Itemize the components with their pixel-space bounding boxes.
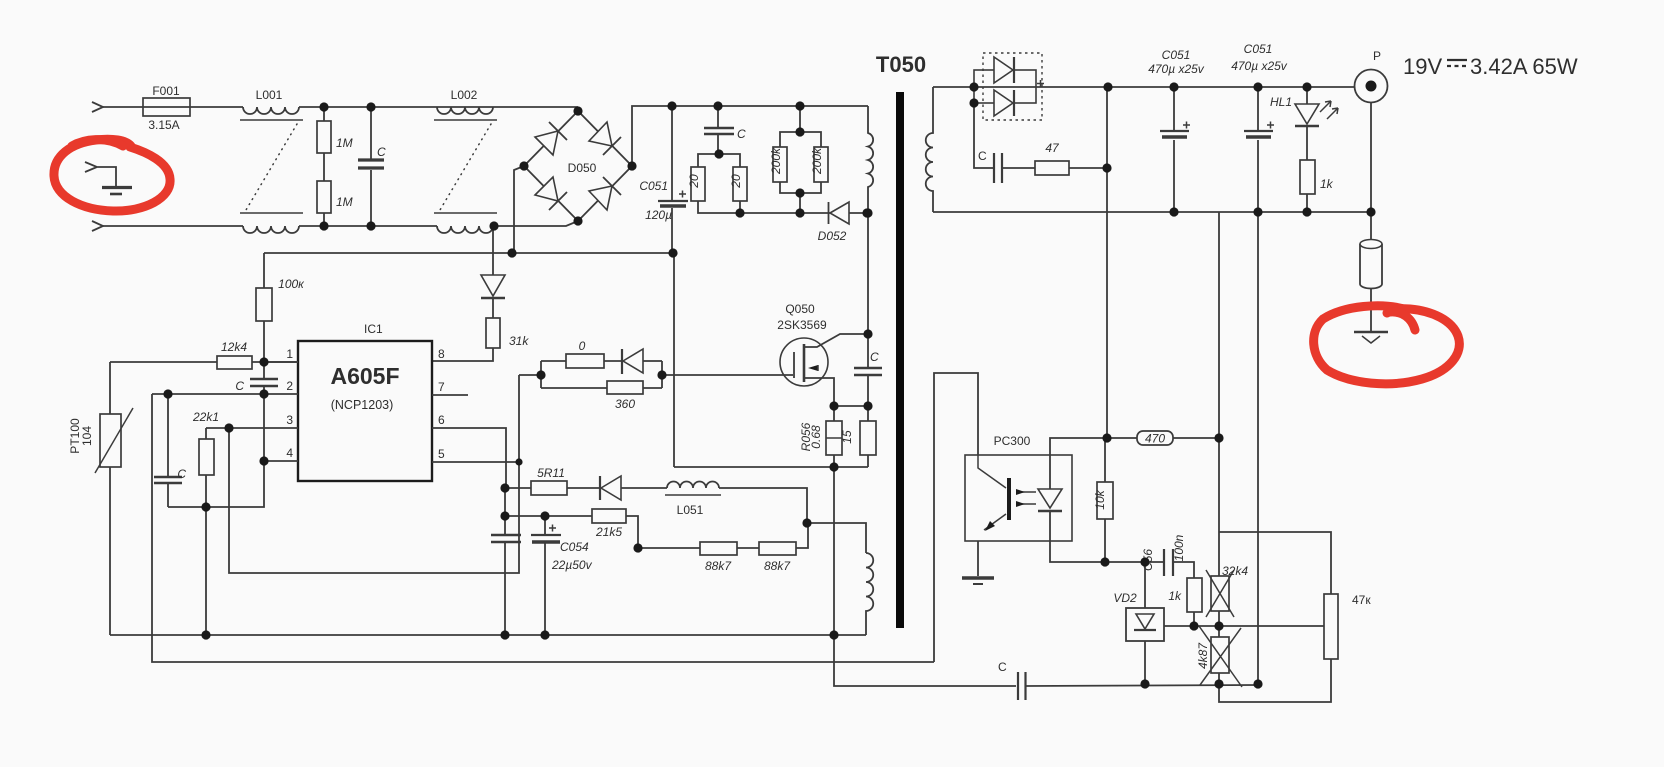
diode aux [599, 476, 601, 500]
wire sense gnd bar y467 [674, 466, 868, 468]
svg-text:120µ: 120µ [645, 208, 672, 222]
wire output rail y87 [974, 86, 1354, 88]
thermistor PT100 104 [109, 362, 111, 635]
svg-text:47к: 47к [1352, 593, 1371, 607]
svg-text:100n: 100n [1172, 534, 1186, 561]
svg-text:32k4: 32k4 [1222, 564, 1248, 578]
resistor 31k [486, 318, 500, 348]
svg-text:10k: 10k [1093, 489, 1107, 509]
wire bead to ground [1370, 289, 1372, 332]
wire bottom AC node down to startup chain [492, 226, 494, 275]
resistor 470 (boxed value) [1107, 437, 1219, 439]
svg-text:22µ50v: 22µ50v [551, 558, 593, 572]
fuse F001 3.15A [143, 98, 190, 116]
wire y684 rail (right of Y-cap) [1026, 685, 1258, 686]
diode D050-1 (L to T) [535, 131, 558, 155]
rectifier dual diode (dotted package) [983, 53, 1042, 120]
svg-text:HL1: HL1 [1270, 95, 1292, 109]
aux winding [866, 553, 873, 635]
wire bottom line to bridge [493, 221, 578, 226]
wire 22k1 bottom to gnd rail [205, 507, 207, 635]
pin 7 stub [432, 394, 468, 396]
diode D050-3 (L to B) [535, 177, 558, 201]
inductor L001 bottom winding [243, 226, 299, 233]
resistor 1M lower [317, 181, 331, 213]
resistor 4k87 (not fitted) [1211, 637, 1229, 673]
diode D050-4 (B to R) [589, 186, 612, 210]
svg-text:C: C [737, 127, 746, 141]
svg-text:3: 3 [286, 413, 293, 427]
svg-text:470µ x25v: 470µ x25v [1148, 62, 1205, 76]
svg-text:3.15A: 3.15A [148, 118, 179, 132]
capacitor C (aux filter) [504, 488, 506, 635]
resistor 100k [263, 253, 265, 362]
resistor 21k5 [505, 515, 592, 517]
ground protective-earth (left, circled) [85, 162, 116, 186]
capacitor C at drain [867, 334, 869, 406]
svg-text:P: P [1373, 49, 1381, 63]
diode D050-2 (T to R) [589, 122, 612, 146]
wire sec gnd x1258 down to y684 [1257, 212, 1259, 684]
pin 2 [152, 393, 298, 395]
wire source return down x834 to y686 [834, 467, 1016, 686]
svg-text:C054: C054 [560, 540, 589, 554]
svg-text:C: C [235, 379, 244, 393]
svg-text:5: 5 [438, 447, 445, 461]
svg-text:470: 470 [1145, 432, 1165, 446]
svg-text:5R11: 5R11 [537, 466, 565, 480]
wire pin2 net down left (x152) to y662 rail [152, 394, 934, 662]
resistor R056 0.68 [833, 406, 835, 467]
svg-text:C: C [870, 350, 879, 364]
svg-text:22k1: 22k1 [192, 410, 219, 424]
svg-text:4k87: 4k87 [1196, 642, 1210, 669]
wire secondary top to rectifier [933, 86, 974, 88]
phototransistor [1007, 478, 1011, 520]
wire between 1M resistors [323, 107, 325, 181]
diode startup [481, 275, 505, 296]
wire bridge + output to top rail [632, 106, 868, 166]
resistor 32k4 (not fitted) [1211, 576, 1229, 611]
diode rect-2 [994, 90, 1013, 116]
svg-text:8: 8 [438, 347, 445, 361]
svg-text:31k: 31k [509, 334, 529, 348]
svg-text:C051: C051 [639, 179, 668, 193]
svg-text:C: C [177, 467, 186, 481]
inductor L001 top winding [243, 107, 299, 114]
transformer core bar [896, 92, 904, 628]
svg-text:20: 20 [687, 174, 701, 189]
svg-text:PC300: PC300 [994, 434, 1031, 448]
inductor L002 top winding [437, 107, 493, 114]
ferrite bead on output gnd [1370, 212, 1372, 240]
svg-text:12k4: 12k4 [221, 340, 247, 354]
svg-text:2: 2 [286, 379, 293, 393]
svg-text:1: 1 [286, 347, 293, 361]
node AC-N input arrow [92, 221, 103, 231]
capacitor C (snubber) [717, 106, 719, 154]
diode gate [621, 349, 623, 374]
svg-text:C: C [978, 149, 987, 163]
svg-text:2SK3569: 2SK3569 [777, 318, 827, 332]
ground PC300 emitter [977, 541, 979, 576]
svg-text:20: 20 [729, 174, 743, 189]
pin 6 [432, 428, 506, 488]
wire AC-L to fuse [103, 106, 143, 108]
svg-text:D052: D052 [818, 229, 847, 243]
svg-text:7: 7 [438, 380, 445, 394]
capacitor C051 120u (bulk) [671, 106, 673, 253]
svg-text:88k7: 88k7 [764, 559, 791, 573]
inductor L002 bottom winding [437, 226, 493, 233]
wire L051 to aux winding [719, 488, 866, 553]
svg-text:21k5: 21k5 [595, 525, 622, 539]
capacitor C (sec snubber) [974, 103, 993, 168]
capacitor C054 22u50v [544, 516, 546, 635]
svg-text:F001: F001 [152, 84, 180, 98]
diode D052 [828, 202, 830, 224]
resistor 360 [541, 387, 607, 389]
svg-text:100к: 100к [278, 277, 305, 291]
svg-text:D050: D050 [568, 161, 597, 175]
capacitor C56 100n [1145, 561, 1163, 563]
resistor 20 (left) [698, 154, 740, 213]
svg-text:104: 104 [80, 426, 94, 446]
resistor 0 [541, 360, 566, 362]
wire sec gnd rail y213 [933, 211, 1371, 213]
svg-text:C: C [377, 145, 386, 159]
resistor 22k1 [205, 428, 207, 507]
resistor 20 (right) [718, 154, 740, 213]
ground output (circled) [1354, 331, 1388, 334]
svg-text:L051: L051 [677, 503, 704, 517]
wire LED anode up to 470 node [1050, 438, 1107, 455]
wire AC-N bottom line [103, 225, 243, 227]
svg-text:(NCP1203): (NCP1203) [331, 398, 394, 412]
primary winding [868, 106, 873, 334]
resistor 88k7 (right) [737, 547, 759, 549]
svg-text:6: 6 [438, 413, 445, 427]
wire pin3 net down and right (y573) [229, 375, 519, 573]
LED arrows [1320, 101, 1331, 112]
opto arrows [1019, 492, 1036, 504]
capacitor C (X-cap) [370, 107, 372, 226]
resistor 5R11 [505, 487, 531, 489]
node bottom rail y253 [264, 252, 673, 254]
svg-text:88k7: 88k7 [705, 559, 732, 573]
svg-text:200k: 200k [769, 147, 783, 175]
svg-text:19V: 19V [1403, 54, 1442, 79]
wire divider top x1219 from sec gnd rail [1218, 212, 1220, 576]
svg-text:4: 4 [286, 446, 293, 460]
wire gate to MOSFET [662, 374, 793, 376]
wire VD2 ref line y626 [1164, 625, 1324, 627]
svg-text:Q050: Q050 [785, 302, 815, 316]
resistor 15 [867, 406, 869, 467]
pin 5 [432, 461, 519, 463]
svg-text:360: 360 [615, 397, 635, 411]
wire snubber node down to opto feed (x1107) [1106, 87, 1108, 438]
pin 4 [264, 460, 298, 462]
svg-text:0: 0 [579, 339, 586, 353]
red annotation circle left [54, 139, 170, 211]
svg-text:0.68: 0.68 [809, 425, 823, 449]
pin 1 [264, 361, 298, 363]
wire P to gnd rail [1370, 103, 1372, 212]
LED inside PC300 [1049, 455, 1051, 541]
svg-text:C051: C051 [1162, 48, 1191, 62]
resistor 200k (right) [800, 132, 821, 213]
wire bridge left node down [514, 166, 524, 253]
red annotation circle right [1314, 306, 1460, 384]
svg-text:15: 15 [840, 430, 854, 444]
wire bottom line [299, 225, 437, 227]
svg-text:A605F: A605F [330, 363, 399, 389]
resistor 12k4 [110, 361, 217, 363]
op-amp U1 IC body [298, 341, 432, 481]
L002 core lines + coupling [434, 119, 497, 121]
svg-text:200k: 200k [810, 147, 824, 175]
wire opto collector routing (x934 down from y373) [934, 373, 978, 662]
svg-text:1M: 1M [336, 195, 353, 209]
wire drain [805, 334, 868, 347]
secondary winding [926, 87, 933, 212]
resistor 200k (left) [780, 106, 800, 193]
pin 3 [206, 427, 298, 429]
wire fuse to L001 [190, 106, 243, 108]
svg-text:C051: C051 [1244, 42, 1273, 56]
capacitor C at pin2 [263, 362, 265, 394]
wire source [805, 378, 834, 406]
svg-text:470µ x25v: 470µ x25v [1231, 59, 1288, 73]
svg-text:L001: L001 [256, 88, 283, 102]
svg-text:L002: L002 [451, 88, 478, 102]
bridge diamond wires [524, 111, 632, 221]
wire LED cathode to y562 [1050, 541, 1145, 562]
inductor L051 [667, 482, 719, 488]
capacitor C (Y-cap bridge) [1018, 672, 1026, 700]
svg-text:1k: 1k [1320, 177, 1334, 191]
svg-text:IC1: IC1 [364, 322, 383, 336]
wire to 47k top [1219, 532, 1331, 594]
wire snubber bottom line [740, 212, 868, 214]
transistor Q050 body [780, 338, 828, 386]
svg-text:3.42A 65W: 3.42A 65W [1470, 54, 1578, 79]
svg-text:C: C [998, 660, 1007, 674]
diode rect-1 [994, 57, 1013, 83]
resistor 1k (fb) [1173, 562, 1194, 626]
svg-text:1M: 1M [336, 136, 353, 150]
L001 core lines + coupling [240, 119, 303, 121]
wire pin1-net vertical to pin4 and y507 [168, 394, 264, 507]
resistor 1k (LED) [1306, 126, 1308, 212]
wire source node bar [834, 405, 868, 407]
resistor 10k [1104, 438, 1106, 562]
wire C051-neg to sense bar (x674) [673, 253, 675, 467]
resistor 88k7 (left) [638, 547, 700, 549]
svg-text:47: 47 [1045, 141, 1060, 155]
svg-text:VD2: VD2 [1113, 591, 1137, 605]
resistor 1M upper [317, 121, 331, 153]
wire gate net left node [519, 361, 541, 388]
node AC-L input arrow [92, 102, 103, 112]
wire primary gnd rail y635 [110, 634, 866, 636]
capacitor C (pin2 net lower) [167, 394, 169, 507]
potentiometer 47k [1324, 594, 1338, 659]
svg-text:T050: T050 [876, 52, 926, 77]
resistor 47 [1003, 167, 1035, 169]
wire top line L001 to nodes [299, 106, 578, 108]
svg-text:1k: 1k [1168, 589, 1182, 603]
wire 1M to bottom line [323, 213, 325, 226]
